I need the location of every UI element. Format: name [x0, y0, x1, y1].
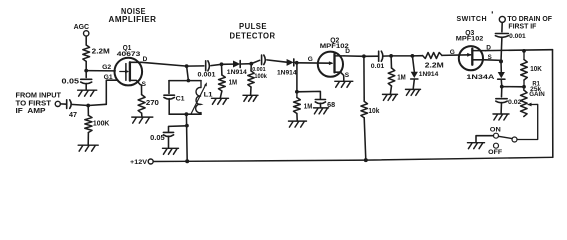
wire 2.2M to Q3 gate: [442, 54, 471, 57]
svg-text:G: G: [308, 56, 313, 63]
wire C1 down: [168, 99, 170, 115]
switch ground: [468, 143, 485, 149]
wire node G to R 2.2M: [412, 55, 422, 57]
node rail riser: [185, 159, 189, 163]
switch throw OFF: [494, 143, 499, 148]
capacitor 0.001 (second): [261, 55, 263, 65]
Q1 channel bar: [129, 62, 131, 80]
switch pole: [512, 137, 517, 142]
wire 1M2 to ground: [296, 114, 298, 121]
node J: [500, 85, 504, 89]
ground Q2 source: [335, 81, 353, 87]
node rail 10k: [364, 158, 368, 162]
node G: [411, 54, 415, 58]
wire node E to C 0.01: [364, 55, 379, 57]
Q1 substrate arrow: [120, 71, 127, 73]
wire node F to 1M: [390, 56, 392, 68]
wire node J to 0.02: [501, 87, 503, 97]
wire node to riser: [88, 104, 106, 105]
svg-text:L1: L1: [204, 92, 213, 99]
ground 0.02: [493, 114, 509, 120]
ground 1M third: [383, 94, 398, 100]
wire 0.02 to ground: [500, 103, 502, 114]
svg-text:47: 47: [69, 112, 77, 119]
wire node C to C2: [251, 60, 259, 63]
capacitor 0.05 (G2 bypass): [81, 78, 92, 80]
svg-text:S: S: [345, 72, 350, 79]
svg-text:AGC: AGC: [74, 24, 90, 31]
svg-text:1N914: 1N914: [227, 69, 247, 76]
svg-text:AMPLIFIER: AMPLIFIER: [109, 15, 157, 24]
node D2 junction: [295, 90, 299, 94]
wire node to 0.05: [85, 71, 87, 78]
Q1 gate bar: [125, 64, 127, 81]
svg-text:1N914: 1N914: [277, 70, 297, 77]
wire node C to 100k: [250, 64, 252, 71]
wire 1M to ground: [220, 91, 222, 98]
svg-text:PULSE: PULSE: [239, 22, 267, 31]
svg-text:G1: G1: [104, 74, 113, 81]
wire node A to tank top: [187, 66, 189, 81]
svg-text:MPF102: MPF102: [456, 35, 484, 42]
Q2 drain lead: [335, 55, 345, 57]
svg-text:+12V: +12V: [130, 159, 147, 166]
wire node to 100K: [87, 106, 89, 116]
capacitor C1: [164, 94, 175, 96]
wire 1M3 to ground: [390, 86, 391, 94]
svg-text:270: 270: [146, 100, 159, 107]
svg-text:1N914: 1N914: [419, 71, 439, 78]
svg-text:10K: 10K: [530, 66, 542, 73]
wire node B to D1: [222, 63, 234, 65]
wire node F to node G: [391, 55, 412, 57]
wire 100k to ground: [250, 87, 252, 95]
svg-text:G: G: [450, 49, 455, 56]
svg-text:DETECTOR: DETECTOR: [230, 32, 276, 41]
resistor 1M second: [296, 92, 298, 98]
wire Q2 drain to node E: [344, 55, 364, 57]
ground 100k det: [243, 95, 258, 101]
svg-text:1N34A: 1N34A: [466, 74, 494, 81]
svg-text:S: S: [142, 81, 147, 88]
wire 0.05 to ground: [168, 136, 170, 148]
svg-text:10k: 10k: [368, 108, 379, 115]
svg-text:1M: 1M: [229, 80, 238, 87]
node bypass stub: [185, 124, 189, 128]
Q3 source lead: [472, 59, 485, 61]
wire 68 to ground: [319, 103, 321, 107]
wire gate Q2: [297, 62, 332, 64]
capacitor 0.05 (rail bypass): [163, 131, 173, 133]
switch throw ON: [494, 133, 499, 138]
resistor 2.2M: [83, 45, 90, 61]
terminal input: [55, 101, 60, 106]
svg-text:100K: 100K: [93, 121, 110, 128]
capacitor 68: [315, 99, 325, 101]
wire 100K to ground: [87, 133, 89, 145]
wire node H to 1N34A: [500, 61, 502, 71]
wire 270 to ground: [141, 113, 143, 116]
wire tank bottom bar: [169, 113, 201, 115]
wire node G to D3: [412, 56, 414, 72]
wire node J to node K: [502, 86, 524, 88]
svg-text:1M: 1M: [397, 74, 406, 81]
inductor L1 coil: [196, 88, 201, 113]
wire to 68 cap: [297, 91, 321, 99]
Q1 source lead: [130, 80, 142, 94]
diode 1N914 second: [287, 59, 294, 66]
wire riser to G1: [106, 80, 118, 104]
wire tank riser: [185, 114, 188, 161]
capacitor 0.01: [378, 51, 380, 61]
wire 2.2M to node G2: [85, 61, 87, 70]
wire +12V rail: [153, 157, 553, 161]
diode 1N34A: [498, 72, 505, 78]
node K: [522, 85, 526, 89]
svg-text:TO DRAIN OF: TO DRAIN OF: [507, 16, 552, 23]
ground 1M second: [289, 121, 307, 127]
wire 10k to rail: [364, 118, 366, 160]
wire 0.05 to ground: [85, 83, 87, 89]
node H (source junction): [499, 59, 503, 63]
transistor Q3 MPF102 body: [459, 46, 483, 70]
Q1 drain lead: [130, 61, 142, 63]
node E: [362, 54, 366, 58]
capacitor 0.001 (coupling): [495, 33, 508, 35]
capacitor 0.001 (first): [205, 61, 207, 71]
capacitor 47: [66, 100, 68, 109]
ground 1M first: [212, 98, 229, 104]
node G2 junction: [84, 69, 88, 73]
svg-text:2.2M: 2.2M: [92, 49, 110, 56]
svg-text:GAIN: GAIN: [529, 91, 545, 98]
Q3 channel bar: [471, 49, 473, 65]
wire AGC to R 2.2M: [85, 36, 87, 45]
transistor Q1 40673 body: [115, 58, 143, 86]
node input junction: [86, 104, 90, 108]
resistor 270: [138, 95, 145, 114]
resistor 10K (source): [523, 51, 525, 60]
wire C0.01 to node F: [383, 55, 392, 57]
node tank bottom: [185, 112, 189, 116]
svg-text:1M: 1M: [304, 103, 313, 110]
resistor 10k (drain load): [361, 101, 368, 117]
inductor L1 branch: [200, 81, 202, 88]
node D: [295, 61, 299, 65]
node B: [220, 62, 224, 66]
terminal TO DRAIN: [499, 16, 505, 22]
node I on D line: [522, 49, 526, 53]
Q3 drain lead: [472, 50, 485, 52]
svg-text:FIRST IF: FIRST IF: [508, 23, 537, 30]
svg-text:100k: 100k: [254, 74, 267, 80]
resistor 1M first: [219, 75, 226, 91]
Q2 source lead: [335, 72, 344, 80]
svg-text:0.01: 0.01: [371, 63, 385, 70]
wire cap down crossing D line: [500, 37, 503, 61]
wire L1 down: [200, 113, 202, 115]
svg-text:D: D: [345, 48, 350, 55]
svg-text:0.001: 0.001: [509, 33, 526, 40]
svg-text:FROM INPUT: FROM INPUT: [16, 93, 62, 100]
diode 1N914 third: [411, 72, 418, 78]
ground G2 bypass: [78, 90, 97, 96]
svg-text:40673: 40673: [117, 51, 141, 58]
svg-text:0.001: 0.001: [198, 72, 216, 79]
Q2 channel bar: [333, 54, 335, 73]
node A: [185, 64, 189, 68]
resistor 100K: [85, 115, 92, 132]
switch arm: [499, 136, 513, 138]
wire node D down: [296, 63, 298, 92]
wire input to C47: [60, 103, 66, 105]
terminal AGC: [84, 31, 89, 36]
svg-text:0.05: 0.05: [62, 79, 80, 86]
svg-text:C1: C1: [176, 95, 185, 102]
svg-text:0.05: 0.05: [150, 135, 165, 142]
terminal +12V: [148, 159, 153, 164]
svg-text:OFF: OFF: [488, 150, 502, 156]
wire D1 to node C: [241, 63, 252, 65]
diode 1N914 first: [233, 61, 240, 68]
svg-text:2.2M: 2.2M: [425, 63, 444, 70]
node F: [389, 54, 393, 58]
wire node B to 1M: [221, 64, 223, 75]
ground 68: [314, 108, 329, 114]
wire terminal to cap: [501, 23, 503, 32]
resistor 1M third: [388, 68, 395, 86]
ground 270: [132, 117, 153, 123]
capacitor 0.02: [496, 98, 507, 100]
ground 0.05 rail: [163, 148, 179, 154]
node tank top: [187, 79, 191, 83]
resistor 100k (det): [248, 71, 254, 87]
wire C2 to D2: [267, 60, 287, 62]
wire stub to 0.05: [169, 126, 187, 133]
wire tank top bar: [169, 80, 201, 82]
wire C47 to node: [71, 104, 88, 105]
ground 100K: [78, 145, 98, 151]
svg-text:TO FIRST: TO FIRST: [16, 100, 52, 107]
wire node A to C 0.001: [187, 65, 204, 67]
svg-text:0.001: 0.001: [252, 67, 266, 73]
wire D3 to ground: [413, 80, 414, 89]
resistor 2.2M (gate): [423, 53, 443, 59]
wire node E down to 10k: [363, 56, 365, 101]
speck: [492, 11, 493, 13]
svg-text:ON: ON: [490, 127, 501, 133]
node C: [249, 62, 253, 66]
ground 1N914 third: [406, 89, 421, 95]
transistor Q2 MPF102 body: [318, 52, 343, 77]
wire Q3 D line: [486, 49, 553, 52]
wire Q1 drain to node A: [142, 62, 187, 66]
wire D2 to node D: [294, 61, 296, 63]
wire G2: [86, 70, 115, 72]
wire ground to ON: [476, 136, 493, 143]
svg-text:SWITCH: SWITCH: [457, 14, 488, 23]
wire Q3 source to node H: [486, 59, 501, 62]
potentiometer R1 25k: [523, 87, 525, 90]
L1 arrow: [191, 86, 205, 115]
wire 1N34A to node J: [500, 80, 503, 87]
svg-text:G2: G2: [102, 64, 111, 71]
wire C1 branch up: [168, 81, 170, 94]
R1 wiper: [528, 104, 532, 106]
svg-text:0.02: 0.02: [508, 99, 522, 106]
wire right rail down: [552, 50, 554, 158]
wire C0.001 to node B: [211, 64, 222, 65]
svg-text:IF AMP: IF AMP: [16, 108, 46, 115]
